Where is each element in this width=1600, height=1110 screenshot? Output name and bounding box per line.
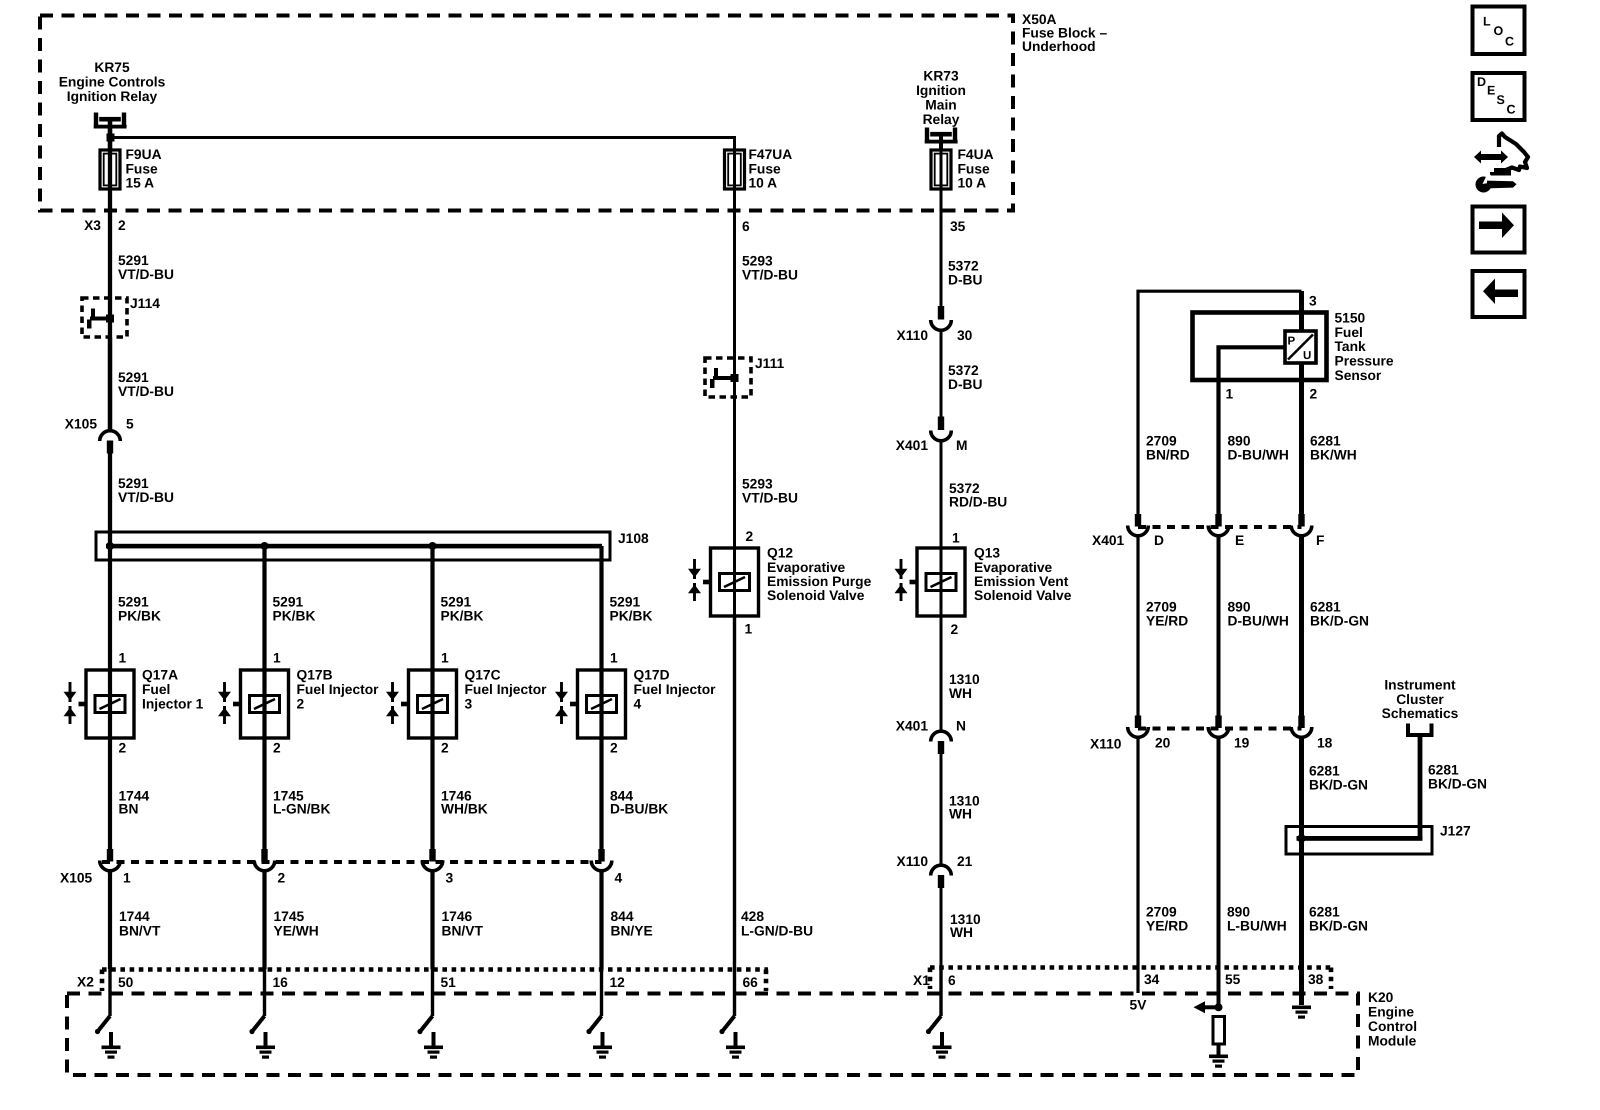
sensor P/U symbol box bbox=[1285, 331, 1316, 363]
label X105 pin number 2 bbox=[278, 871, 286, 886]
wire 5291 PK/BK from J108 to injector Q17B bbox=[262, 546, 266, 671]
wire 1746 BN/VT X105 to X2 bbox=[430, 871, 434, 969]
label Q17D bbox=[634, 668, 717, 712]
label F4UA Fuse 10 A bbox=[958, 147, 994, 191]
label X2 pin 16 bbox=[273, 975, 289, 990]
label wire 844 BN/YE bbox=[611, 909, 653, 938]
connector X110 pin 19 bbox=[1208, 716, 1229, 738]
svg-text:5291: 5291 bbox=[610, 595, 641, 610]
wire 890 D-BU/WH X401 E to X110 19 bbox=[1217, 536, 1221, 718]
wire 428 from Q12 to X2 pin 66 bbox=[733, 614, 736, 969]
svg-text:1: 1 bbox=[123, 871, 131, 886]
svg-text:D: D bbox=[1477, 75, 1486, 89]
label wire 5293 VT/D-BU bbox=[742, 254, 798, 283]
svg-text:6281: 6281 bbox=[1310, 600, 1341, 615]
svg-text:KR75: KR75 bbox=[94, 60, 130, 75]
svg-text:X110: X110 bbox=[1090, 737, 1122, 752]
svg-text:1: 1 bbox=[273, 651, 281, 666]
resistor pull-up on pin 55 bbox=[1213, 1017, 1225, 1045]
svg-text:S: S bbox=[1497, 93, 1505, 107]
wire 1744 BN/VT X105 to X2 bbox=[108, 871, 112, 969]
connector row X110 20 19 18 dashed line bbox=[1138, 727, 1302, 731]
svg-text:Fuel: Fuel bbox=[1335, 325, 1363, 340]
svg-text:2: 2 bbox=[273, 741, 281, 756]
svg-text:BK/D-GN: BK/D-GN bbox=[1309, 778, 1368, 793]
instrument cluster bracket bbox=[1408, 724, 1432, 736]
svg-text:1: 1 bbox=[119, 651, 127, 666]
label Q17A bbox=[142, 668, 204, 712]
svg-text:Fuel: Fuel bbox=[142, 682, 170, 697]
wire 844 BN/YE X105 to X2 bbox=[599, 871, 603, 969]
svg-text:428: 428 bbox=[741, 909, 764, 924]
solenoid valve Q13 bbox=[895, 548, 966, 616]
fuse block X50A dashed border bbox=[40, 16, 1013, 211]
svg-text:Sensor: Sensor bbox=[1335, 368, 1382, 383]
svg-text:L-GN/D-BU: L-GN/D-BU bbox=[741, 923, 813, 938]
svg-text:Underhood: Underhood bbox=[1022, 39, 1096, 54]
wire relay KR73 to fuse F4UA bbox=[939, 132, 943, 151]
junction node J108 at injector 1 bbox=[106, 542, 114, 550]
label X110 pin 20 bbox=[1155, 736, 1171, 751]
svg-text:6281: 6281 bbox=[1309, 905, 1340, 920]
label pin 1 of Q13 bbox=[952, 531, 960, 546]
svg-text:BK/D-GN: BK/D-GN bbox=[1310, 614, 1369, 629]
wire 5293 from fuse F47UA through pin 6 to J111 bbox=[733, 140, 736, 549]
svg-text:1744: 1744 bbox=[119, 909, 150, 924]
switch injector 3 driver bbox=[417, 969, 432, 1034]
wire 6281 sensor pin 3 top link bbox=[1138, 291, 1302, 516]
junction node pin 55 bbox=[1215, 1003, 1223, 1011]
svg-text:2: 2 bbox=[1310, 387, 1318, 402]
svg-text:2: 2 bbox=[297, 696, 305, 711]
connector X105 pin 1 bbox=[100, 849, 121, 871]
svg-text:Q17B: Q17B bbox=[297, 668, 333, 683]
svg-text:35: 35 bbox=[950, 219, 966, 234]
icon DESC button bbox=[1473, 73, 1525, 120]
label wire 5291 PK/BK (3) bbox=[441, 595, 484, 624]
svg-text:L: L bbox=[1483, 15, 1491, 29]
svg-text:Q12: Q12 bbox=[767, 546, 793, 561]
wire 5372 X110 to X401 bbox=[940, 330, 943, 418]
svg-text:Ignition: Ignition bbox=[916, 83, 966, 98]
svg-text:51: 51 bbox=[441, 975, 457, 990]
svg-text:55: 55 bbox=[1225, 972, 1241, 987]
svg-text:D-BU/WH: D-BU/WH bbox=[1228, 448, 1289, 463]
svg-text:M: M bbox=[956, 438, 968, 453]
label X105 row bbox=[60, 871, 93, 886]
svg-text:Main: Main bbox=[925, 97, 956, 112]
wire 5372 RD/D-BU X401 to Q13 bbox=[940, 441, 943, 615]
svg-text:N: N bbox=[956, 719, 966, 734]
svg-text:2709: 2709 bbox=[1146, 434, 1177, 449]
svg-text:J111: J111 bbox=[755, 356, 784, 371]
fuse F9UA 15A bbox=[100, 150, 120, 189]
svg-text:5V: 5V bbox=[1130, 998, 1148, 1013]
splice bar J108 bbox=[96, 532, 610, 560]
svg-text:1746: 1746 bbox=[442, 909, 473, 924]
label pin 1 of Q17C bbox=[441, 651, 449, 666]
label X110 pin 30 bbox=[897, 328, 973, 343]
svg-text:Emission Purge: Emission Purge bbox=[767, 574, 872, 589]
label wire 5293 VT/D-BU (2) bbox=[742, 477, 798, 506]
svg-text:X401: X401 bbox=[896, 719, 929, 734]
svg-text:J127: J127 bbox=[1440, 824, 1471, 839]
fuse F47UA 10A bbox=[725, 150, 745, 189]
wire 5291 PK/BK from J108 to injector Q17A bbox=[108, 546, 112, 671]
svg-text:2: 2 bbox=[746, 529, 754, 544]
svg-text:YE/RD: YE/RD bbox=[1146, 919, 1188, 934]
svg-text:2709: 2709 bbox=[1146, 600, 1177, 615]
connector X110 pin 18 bbox=[1291, 716, 1312, 738]
label wire 6281 BK/D-GN bbox=[1310, 600, 1369, 629]
svg-text:VT/D-BU: VT/D-BU bbox=[118, 490, 174, 505]
svg-text:RD/D-BU: RD/D-BU bbox=[949, 495, 1007, 510]
label pin 1 of Q17B bbox=[273, 651, 281, 666]
wire 5291 from J114 to X105 bbox=[108, 337, 112, 430]
svg-text:Fuse: Fuse bbox=[749, 161, 782, 176]
wire segment through Q12 bbox=[733, 549, 736, 614]
wire sensor pin 2 bbox=[1299, 363, 1304, 516]
svg-text:4: 4 bbox=[634, 696, 642, 711]
label Q13 Evaporative Emission Vent Solenoid Valve bbox=[974, 546, 1072, 604]
label wire 6281 BK/D-GN (2) bbox=[1309, 764, 1368, 793]
label X110 pin 19 bbox=[1234, 736, 1250, 751]
label pin 6 bbox=[742, 219, 750, 234]
label Q17C bbox=[465, 668, 548, 712]
label X2 pin 51 bbox=[441, 975, 457, 990]
connector X401 pin D bbox=[1128, 514, 1149, 536]
label X2 bbox=[77, 975, 94, 990]
label pin 1 of Q12 bbox=[745, 622, 753, 637]
label pin 3 of sensor bbox=[1309, 294, 1317, 309]
svg-text:2: 2 bbox=[118, 218, 126, 233]
label X1 pin 6 bbox=[948, 973, 956, 988]
svg-text:1: 1 bbox=[610, 651, 618, 666]
connector X110 pin 30 inline bbox=[931, 306, 952, 330]
label X1 pin 38 bbox=[1308, 972, 1324, 987]
svg-text:6281: 6281 bbox=[1310, 434, 1341, 449]
svg-text:Fuel Injector: Fuel Injector bbox=[465, 682, 548, 697]
ground pin 38 bbox=[1292, 1006, 1311, 1019]
svg-text:Q13: Q13 bbox=[974, 546, 1000, 561]
svg-text:34: 34 bbox=[1144, 972, 1160, 987]
svg-text:16: 16 bbox=[273, 975, 289, 990]
svg-text:L-GN/BK: L-GN/BK bbox=[273, 802, 331, 817]
label pin 2 of Q12 bbox=[746, 529, 754, 544]
fuel injector Q17A bbox=[64, 670, 135, 738]
label Q12 Evaporative Emission Purge Solenoid Valve bbox=[767, 546, 872, 604]
svg-text:30: 30 bbox=[957, 328, 973, 343]
label pin 1 of sensor bbox=[1226, 387, 1234, 402]
svg-text:X401: X401 bbox=[1092, 533, 1125, 548]
svg-text:D-BU: D-BU bbox=[948, 377, 983, 392]
label X105 pin number 3 bbox=[446, 871, 454, 886]
wire 2709 YE/RD X110 20 to X1 34 bbox=[1136, 738, 1139, 994]
label wire 5291 VT/D-BU (2) bbox=[118, 370, 174, 399]
svg-text:U: U bbox=[1303, 350, 1311, 362]
svg-text:F: F bbox=[1316, 533, 1324, 548]
svg-text:BK/WH: BK/WH bbox=[1310, 448, 1357, 463]
label X401 row bbox=[1092, 533, 1125, 548]
label wire 428 L-GN/D-BU bbox=[741, 909, 813, 938]
label wire 6281 BK/WH bbox=[1310, 434, 1357, 463]
node 5V reference bbox=[1130, 998, 1148, 1013]
svg-text:2: 2 bbox=[119, 741, 127, 756]
svg-text:5291: 5291 bbox=[273, 595, 304, 610]
svg-text:O: O bbox=[1494, 24, 1504, 38]
svg-text:X1: X1 bbox=[913, 973, 930, 988]
svg-text:X3: X3 bbox=[84, 218, 101, 233]
label J127 bbox=[1440, 824, 1471, 839]
svg-text:Engine: Engine bbox=[1368, 1005, 1414, 1020]
svg-text:Cluster: Cluster bbox=[1396, 692, 1444, 707]
svg-text:J108: J108 bbox=[618, 531, 649, 546]
label X2 pin 50 bbox=[118, 975, 134, 990]
label wire 5291 PK/BK (1) bbox=[118, 595, 161, 624]
connector X105 pin 4 bbox=[591, 849, 612, 871]
svg-text:PK/BK: PK/BK bbox=[273, 609, 316, 624]
wire 5291 from fuse F9UA through X3 pin 2 to J114 bbox=[108, 120, 112, 430]
svg-text:Q17A: Q17A bbox=[142, 668, 178, 683]
wire link KR75 junction to fuse F47UA bbox=[110, 138, 736, 152]
svg-text:4: 4 bbox=[615, 871, 623, 886]
wire 6281 BK/D-GN X110 18 through J127 to X1 38 bbox=[1299, 738, 1304, 1006]
svg-text:1: 1 bbox=[745, 622, 753, 637]
svg-text:K20: K20 bbox=[1368, 990, 1394, 1005]
svg-text:Engine Controls: Engine Controls bbox=[59, 75, 166, 90]
label F47UA Fuse 10 A bbox=[749, 147, 793, 191]
svg-text:P: P bbox=[1288, 336, 1296, 348]
connector X105 pin 5 inline bbox=[100, 431, 121, 454]
label wire 2709 YE/RD bbox=[1146, 600, 1188, 629]
svg-text:PK/BK: PK/BK bbox=[441, 609, 484, 624]
svg-text:2: 2 bbox=[441, 741, 449, 756]
ground injector 4 driver bbox=[593, 1032, 612, 1059]
svg-text:WH: WH bbox=[949, 686, 972, 701]
connector J111 dashed box and splice symbol bbox=[705, 358, 751, 397]
svg-text:VT/D-BU: VT/D-BU bbox=[118, 384, 174, 399]
connector X401 pin F bbox=[1291, 514, 1312, 536]
switch vent valve driver bbox=[926, 969, 941, 1034]
svg-text:Solenoid Valve: Solenoid Valve bbox=[974, 588, 1072, 603]
svg-text:C: C bbox=[1505, 35, 1514, 49]
wire 1745 L-GN/BK injector Q17B to X105 bbox=[262, 738, 266, 850]
svg-text:5291: 5291 bbox=[441, 595, 472, 610]
label wire 1745 YE/WH bbox=[274, 909, 319, 938]
svg-text:VT/D-BU: VT/D-BU bbox=[118, 267, 174, 282]
label X401 pin E bbox=[1235, 533, 1244, 548]
label K20 Engine Control Module bbox=[1368, 990, 1417, 1048]
label wire 2709 YE/RD (2) bbox=[1146, 905, 1188, 934]
svg-text:66: 66 bbox=[743, 975, 759, 990]
svg-text:Emission Vent: Emission Vent bbox=[974, 574, 1069, 589]
svg-text:KR73: KR73 bbox=[923, 69, 959, 84]
connector X401 pin M inline bbox=[931, 417, 952, 441]
svg-text:E: E bbox=[1235, 533, 1244, 548]
label wire 2709 BN/RD bbox=[1146, 434, 1190, 463]
svg-text:Fuel Injector: Fuel Injector bbox=[297, 682, 380, 697]
svg-text:12: 12 bbox=[610, 975, 626, 990]
solenoid valve Q12 bbox=[688, 548, 759, 616]
svg-text:2709: 2709 bbox=[1146, 905, 1177, 920]
switch injector 1 driver bbox=[95, 969, 110, 1034]
label wire 1310 WH (2) bbox=[949, 794, 980, 822]
label pin 1 of Q17D bbox=[610, 651, 618, 666]
label X401 pin F bbox=[1316, 533, 1324, 548]
label X105 pin number 4 bbox=[615, 871, 623, 886]
ground purge valve driver bbox=[726, 1032, 745, 1059]
wire 1310 WH from Q13 to X401 N bbox=[940, 614, 943, 731]
label wire 5291 VT/D-BU (3) bbox=[118, 476, 174, 505]
wire 5293 from J111 to solenoid Q12 bbox=[733, 397, 736, 549]
wire 5291 PK/BK from J108 to injector Q17D bbox=[599, 546, 603, 671]
label J108 bbox=[618, 531, 649, 546]
svg-text:Q17D: Q17D bbox=[634, 668, 670, 683]
label X401 pin D bbox=[1154, 533, 1164, 548]
svg-text:2: 2 bbox=[610, 741, 618, 756]
svg-text:3: 3 bbox=[446, 871, 454, 886]
wire 5372 from fuse F4UA through pin 35 to X110 bbox=[940, 135, 943, 308]
svg-text:3: 3 bbox=[1309, 294, 1317, 309]
label KR75 Engine Controls Ignition Relay bbox=[59, 60, 166, 104]
connector X110 pin 21 inline bbox=[931, 865, 952, 888]
label wire 1746 BN/VT bbox=[442, 909, 484, 938]
svg-text:1745: 1745 bbox=[274, 909, 305, 924]
label pin 2 of Q17A bbox=[119, 741, 127, 756]
label wire 6281 BK/D-GN (cluster) bbox=[1428, 763, 1487, 792]
svg-text:D-BU/WH: D-BU/WH bbox=[1228, 614, 1289, 629]
connector row X105 dashed line bbox=[102, 860, 602, 864]
label pin 2 of Q17C bbox=[441, 741, 449, 756]
label wire 844 D-BU/BK bbox=[610, 789, 668, 817]
svg-text:6: 6 bbox=[742, 219, 750, 234]
label wire 1310 WH (3) bbox=[950, 912, 981, 940]
svg-text:Evaporative: Evaporative bbox=[974, 560, 1053, 575]
svg-text:10 A: 10 A bbox=[749, 176, 778, 191]
svg-text:890: 890 bbox=[1228, 434, 1251, 449]
svg-text:1: 1 bbox=[441, 651, 449, 666]
label X401 pin N bbox=[896, 719, 966, 734]
svg-text:6281: 6281 bbox=[1428, 763, 1459, 778]
svg-text:Module: Module bbox=[1368, 1033, 1417, 1048]
svg-text:F9UA: F9UA bbox=[126, 147, 162, 162]
svg-text:2: 2 bbox=[278, 871, 286, 886]
svg-text:6281: 6281 bbox=[1309, 764, 1340, 779]
fuel injector Q17C bbox=[386, 670, 457, 738]
relay KR73 symbol bbox=[925, 128, 958, 144]
label wire 1744 BN bbox=[119, 789, 150, 817]
label wire 5372 D-BU bbox=[948, 259, 983, 288]
label pin 2 of Q17D bbox=[610, 741, 618, 756]
svg-text:Ignition Relay: Ignition Relay bbox=[67, 89, 158, 104]
wire relay KR75 to fuse F9UA bbox=[108, 117, 112, 151]
svg-text:Relay: Relay bbox=[923, 112, 960, 127]
svg-text:Injector 1: Injector 1 bbox=[142, 696, 204, 711]
label X2 pin 12 bbox=[610, 975, 626, 990]
svg-text:X105: X105 bbox=[60, 871, 93, 886]
ground injector 1 driver bbox=[102, 1032, 121, 1059]
ground vent valve driver bbox=[933, 1032, 952, 1059]
label wire 1746 WH/BK bbox=[441, 789, 488, 817]
svg-text:890: 890 bbox=[1227, 905, 1250, 920]
svg-text:BK/D-GN: BK/D-GN bbox=[1428, 777, 1487, 792]
connector X401 pin E bbox=[1208, 514, 1229, 536]
svg-text:BN/YE: BN/YE bbox=[611, 923, 653, 938]
connector row X401 D E F dashed line bbox=[1138, 525, 1302, 529]
label wire 5372 RD/D-BU bbox=[949, 481, 1007, 510]
svg-text:6: 6 bbox=[948, 973, 956, 988]
splice J127 bbox=[1286, 827, 1432, 855]
label X50A Fuse Block - Underhood bbox=[1022, 12, 1107, 54]
ground pin 55 bbox=[1209, 1044, 1228, 1068]
svg-text:890: 890 bbox=[1228, 600, 1251, 615]
icon arrow left button bbox=[1473, 271, 1525, 317]
label wire 1310 WH bbox=[949, 672, 980, 701]
label pin 1 of Q17A bbox=[119, 651, 127, 666]
wire sensor pin 1 bbox=[1219, 347, 1286, 516]
label wire 5372 D-BU (2) bbox=[948, 363, 983, 392]
label wire 5291 PK/BK (2) bbox=[273, 595, 316, 624]
label wire 1745 L-GN/BK bbox=[273, 789, 331, 817]
svg-text:D-BU/BK: D-BU/BK bbox=[610, 802, 668, 817]
label F9UA Fuse 15 A bbox=[126, 147, 162, 191]
wire 890 L-BU/WH X110 19 to X1 55 bbox=[1217, 738, 1221, 1008]
svg-text:Fuse: Fuse bbox=[958, 161, 991, 176]
svg-text:WH: WH bbox=[949, 807, 972, 822]
label X110 pin 21 bbox=[897, 854, 973, 869]
svg-text:L-BU/WH: L-BU/WH bbox=[1227, 919, 1287, 934]
svg-text:VT/D-BU: VT/D-BU bbox=[742, 491, 798, 506]
svg-text:Schematics: Schematics bbox=[1382, 706, 1459, 721]
wire 1310 WH X110 21 to X1 pin 6 bbox=[940, 888, 943, 1016]
junction node J108 at injector 3 bbox=[429, 542, 437, 550]
svg-text:PK/BK: PK/BK bbox=[118, 609, 161, 624]
svg-text:X110: X110 bbox=[897, 854, 929, 869]
junction relay branch node bbox=[107, 134, 115, 142]
svg-text:5291: 5291 bbox=[118, 253, 149, 268]
svg-text:Fuel Injector: Fuel Injector bbox=[634, 682, 717, 697]
svg-text:19: 19 bbox=[1234, 736, 1250, 751]
svg-text:BN: BN bbox=[119, 802, 139, 817]
arrow output pin 55 bbox=[1194, 1001, 1219, 1013]
relay KR75 symbol bbox=[94, 113, 127, 129]
connector X105 pin 2 bbox=[254, 849, 275, 871]
svg-text:5372: 5372 bbox=[948, 363, 979, 378]
label X1 pin 34 bbox=[1144, 972, 1160, 987]
label X110 row bbox=[1090, 737, 1122, 752]
label Q17B bbox=[297, 668, 380, 712]
svg-text:844: 844 bbox=[611, 909, 634, 924]
label wire 6281 BK/D-GN (3) bbox=[1309, 905, 1368, 934]
label wire 890 D-BU/WH (2) bbox=[1228, 600, 1289, 629]
svg-text:WH/BK: WH/BK bbox=[441, 802, 488, 817]
svg-text:D: D bbox=[1154, 533, 1164, 548]
ground injector 3 driver bbox=[424, 1032, 443, 1059]
svg-text:X105: X105 bbox=[65, 417, 98, 432]
connector row X2 dotted line bbox=[102, 970, 768, 992]
label KR73 Ignition Main Relay bbox=[916, 69, 966, 127]
label X1 bbox=[913, 973, 930, 988]
svg-text:YE/WH: YE/WH bbox=[274, 923, 319, 938]
svg-text:Evaporative: Evaporative bbox=[767, 560, 846, 575]
icon hotlink (wrench and arrows) bbox=[1474, 134, 1528, 193]
svg-text:20: 20 bbox=[1155, 736, 1171, 751]
svg-text:5291: 5291 bbox=[118, 595, 149, 610]
connector X401 pin N inline bbox=[931, 731, 952, 754]
label pin 2 of Q17B bbox=[273, 741, 281, 756]
svg-text:5293: 5293 bbox=[742, 254, 773, 269]
wire 1744 BN injector Q17A to X105 bbox=[108, 738, 112, 850]
